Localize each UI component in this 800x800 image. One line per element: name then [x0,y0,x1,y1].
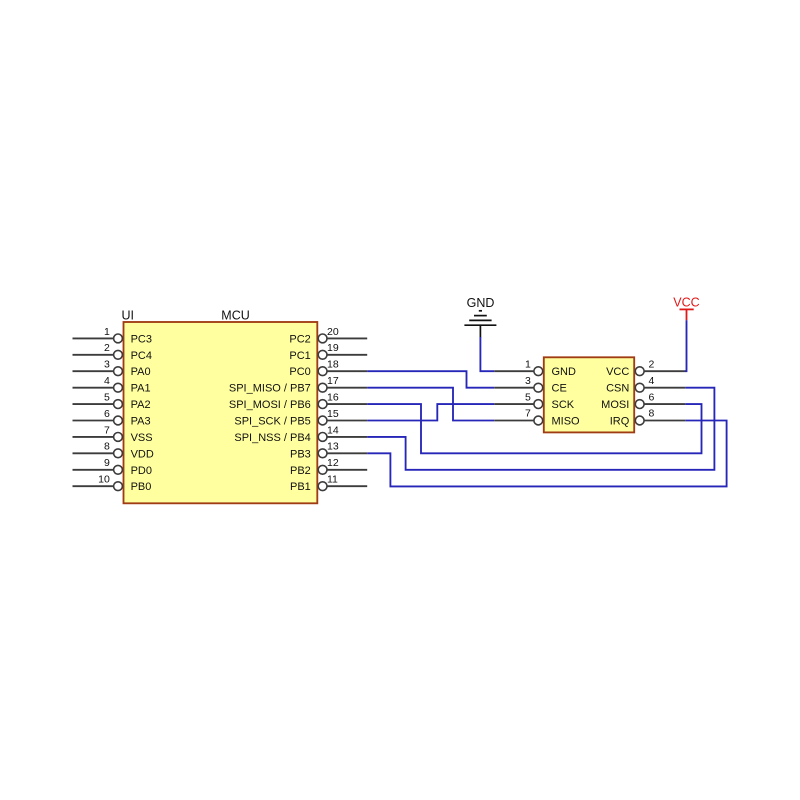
MCU pin 9 (PD0) [73,457,153,477]
svg-text:18: 18 [327,359,339,371]
svg-text:PB3: PB3 [290,448,311,460]
svg-text:PA3: PA3 [131,416,151,428]
MCU pin 15 (SPI_SCK - PB5) [234,408,367,428]
MCU U1 body [124,322,318,503]
wire SPI_SCK (pin 15) to SCK (pin 5) [367,404,494,420]
svg-text:7: 7 [104,424,110,436]
svg-text:8: 8 [649,408,655,420]
svg-text:VCC: VCC [606,366,629,378]
module pin 8 (IRQ) [610,408,686,428]
svg-text:4: 4 [649,375,655,387]
MCU pin 13 (PB3) [290,441,367,461]
wire SPI_NSS (pin 14) to CSN (pin 4) [367,388,714,470]
svg-text:PC0: PC0 [289,366,310,378]
svg-text:5: 5 [104,392,110,404]
svg-text:9: 9 [104,457,110,469]
svg-text:12: 12 [327,457,339,469]
svg-text:11: 11 [327,474,338,486]
svg-text:UI: UI [122,309,135,323]
svg-text:PA1: PA1 [131,383,151,395]
svg-text:CE: CE [552,383,567,395]
MCU pin 11 (PB1) [290,474,367,494]
svg-text:3: 3 [104,359,110,371]
RF module U2 body [544,357,634,432]
svg-text:8: 8 [104,441,110,453]
ground symbol [464,311,496,338]
svg-text:PD0: PD0 [131,465,152,477]
svg-text:2: 2 [104,342,110,354]
svg-text:16: 16 [327,392,339,404]
module pin 6 (MOSI) [601,391,685,411]
wire SPI_MISO (pin 17) to MISO (pin 7) [367,388,494,421]
MCU pin 7 (VSS) [73,424,153,444]
svg-text:19: 19 [327,342,339,354]
svg-text:MISO: MISO [552,416,581,428]
MCU pin 18 (PC0) [289,359,367,379]
svg-text:15: 15 [327,408,339,420]
module pin 1 (GND) [494,358,576,378]
wire VCC net to module pin 2 [685,320,687,371]
svg-text:PB1: PB1 [290,481,311,493]
svg-text:SPI_NSS / PB4: SPI_NSS / PB4 [234,432,310,444]
MCU pin 3 (PA0) [73,359,151,379]
svg-text:GND: GND [467,296,495,310]
svg-text:VSS: VSS [131,432,153,444]
svg-text:VCC: VCC [673,296,699,310]
svg-text:PC3: PC3 [131,333,152,345]
MCU pin 17 (SPI_MISO - PB7) [229,375,367,395]
svg-text:IRQ: IRQ [610,416,630,428]
MCU pin 14 (SPI_NSS - PB4) [234,424,367,444]
svg-text:PC2: PC2 [289,333,310,345]
svg-text:PA2: PA2 [131,399,151,411]
svg-text:13: 13 [327,441,339,453]
svg-text:3: 3 [525,375,531,387]
svg-text:PC4: PC4 [131,350,152,362]
svg-text:14: 14 [327,424,339,436]
svg-text:PC1: PC1 [289,350,310,362]
svg-text:4: 4 [104,375,110,387]
svg-text:10: 10 [98,474,110,486]
svg-text:1: 1 [104,326,110,338]
svg-text:SPI_MISO / PB7: SPI_MISO / PB7 [229,383,311,395]
svg-text:SPI_SCK / PB5: SPI_SCK / PB5 [234,416,310,428]
MCU pin 4 (PA1) [73,375,151,395]
svg-text:SCK: SCK [552,399,575,411]
wire GND net to module pin 1 [480,337,494,371]
svg-text:SPI_MOSI / PB6: SPI_MOSI / PB6 [229,399,311,411]
svg-text:2: 2 [649,358,655,370]
svg-text:MOSI: MOSI [601,399,629,411]
module pin 3 (CE) [494,375,567,395]
wire SPI_MOSI (pin 16) to MOSI (pin 6) [367,404,701,453]
MCU pin 20 (PC2) [289,326,367,346]
svg-text:PB2: PB2 [290,465,311,477]
MCU pin 8 (VDD) [73,441,154,461]
svg-text:GND: GND [552,366,577,378]
wire PC0 (pin 18) to CE (pin 3) [367,371,494,388]
svg-text:6: 6 [104,408,110,420]
svg-text:7: 7 [525,408,531,420]
module pin 4 (CSN) [606,375,685,395]
MCU pin 2 (PC4) [73,342,153,362]
MCU pin 1 (PC3) [73,326,153,346]
MCU pin 5 (PA2) [73,392,151,412]
svg-text:CSN: CSN [606,383,629,395]
MCU pin 19 (PC1) [289,342,367,362]
module pin 7 (MISO) [494,408,580,428]
svg-text:PA0: PA0 [131,366,151,378]
svg-text:5: 5 [525,391,531,403]
svg-text:MCU: MCU [221,309,249,323]
svg-text:VDD: VDD [131,448,154,460]
svg-text:17: 17 [327,375,339,387]
MCU pin 12 (PB2) [290,457,367,477]
MCU pin 16 (SPI_MOSI - PB6) [229,392,367,412]
svg-text:20: 20 [327,326,339,338]
svg-text:6: 6 [649,391,655,403]
MCU pin 10 (PB0) [73,474,152,494]
svg-text:1: 1 [525,358,531,370]
wire PB3 (pin 13) to IRQ (pin 8) [367,421,726,487]
MCU pin 6 (PA3) [73,408,151,428]
power symbol VCC [680,309,694,320]
module pin 2 (VCC) [606,358,685,378]
module pin 5 (SCK) [494,391,575,411]
svg-text:PB0: PB0 [131,481,152,493]
